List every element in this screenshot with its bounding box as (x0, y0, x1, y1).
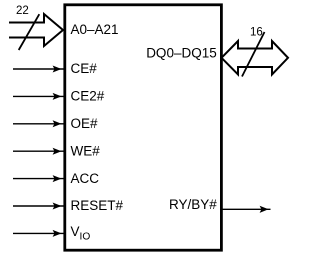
wire CE# (13, 66, 64, 73)
svg-text:DQ0–DQ15: DQ0–DQ15 (146, 46, 217, 61)
bidirectional bus arrow DQ0-DQ15 (16-bit data bus) (222, 41, 289, 75)
wire VIO (13, 230, 64, 237)
wire ACC (13, 175, 64, 182)
wire RY/BY# output (222, 206, 271, 213)
svg-text:WE#: WE# (71, 143, 101, 158)
bus arrow A0-A21 (22-bit address bus) (9, 14, 63, 46)
wire OE# (13, 120, 64, 127)
bus width slash (22) (19, 14, 40, 50)
svg-text:ACC: ACC (71, 171, 100, 186)
chip body U1 (65, 5, 222, 250)
svg-text:A0–A21: A0–A21 (71, 22, 119, 37)
svg-text:22: 22 (16, 5, 29, 17)
svg-text:16: 16 (250, 26, 263, 38)
wire CE2# (13, 93, 64, 100)
svg-text:OE#: OE# (71, 116, 99, 131)
bus width slash (16) (242, 32, 265, 77)
svg-text:CE#: CE# (71, 61, 98, 76)
wire RESET# (13, 203, 64, 210)
svg-text:CE2#: CE2# (71, 89, 105, 104)
svg-text:RY/BY#: RY/BY# (169, 197, 217, 212)
wire WE# (13, 148, 64, 155)
svg-text:RESET#: RESET# (71, 198, 124, 213)
